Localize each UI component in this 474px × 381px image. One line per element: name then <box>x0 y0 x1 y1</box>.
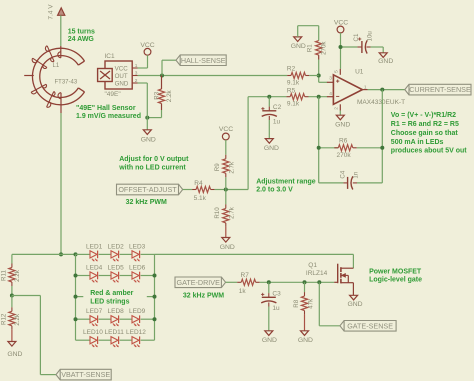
svg-text:C4: C4 <box>340 170 347 178</box>
capacitor C2 1u <box>261 97 281 139</box>
LED LED12 <box>132 336 140 347</box>
svg-text:LED6: LED6 <box>129 265 146 272</box>
flag GATE-DRIVE <box>175 277 226 288</box>
svg-text:LED11: LED11 <box>105 329 125 336</box>
svg-text:LED2: LED2 <box>108 243 125 250</box>
annotation: 49E hall sensor <box>76 105 141 120</box>
svg-text:5: 5 <box>333 70 339 73</box>
LED LED4 <box>90 272 98 283</box>
flag OFFSET-ADJUST <box>117 184 183 195</box>
resistor R4 5.1k <box>183 180 226 202</box>
junction left bus <box>74 274 78 278</box>
svg-text:VBATT-SENSE: VBATT-SENSE <box>61 370 110 379</box>
svg-text:9.1k: 9.1k <box>287 101 300 108</box>
junction VCC/C1 <box>339 45 343 49</box>
svg-text:R1: R1 <box>307 44 314 52</box>
svg-text:IRLZ14: IRLZ14 <box>306 270 328 277</box>
svg-text:Adjust for 0 V output: Adjust for 0 V output <box>119 156 189 163</box>
svg-text:500 mA in LEDs: 500 mA in LEDs <box>391 139 444 146</box>
resistor R1 270k <box>307 41 328 60</box>
svg-text:produces about 5V out: produces about 5V out <box>391 148 468 155</box>
svg-text:CURRENT-SENSE: CURRENT-SENSE <box>409 85 471 94</box>
svg-text:1: 1 <box>135 63 138 69</box>
svg-text:3: 3 <box>329 75 332 81</box>
svg-text:VCC: VCC <box>219 126 233 133</box>
svg-text:C1: C1 <box>353 33 360 41</box>
op-amp U1 <box>327 69 368 111</box>
junction gate-sense tap <box>317 280 321 284</box>
svg-text:GND: GND <box>7 351 22 358</box>
wire IC1 OUT to R2 (hall-sense net) <box>138 75 288 77</box>
wire LED row 3 <box>76 318 155 320</box>
junction left bus top <box>74 252 78 256</box>
svg-text:2.7k: 2.7k <box>228 161 235 174</box>
annotation: adjust for 0V <box>118 156 189 171</box>
junction R8 tap <box>303 280 307 284</box>
junction R6 right <box>380 146 384 150</box>
junction R6 left <box>317 146 321 150</box>
svg-text:2.2k: 2.2k <box>166 89 173 102</box>
resistor R3 2.2k <box>154 76 173 111</box>
svg-text:R8: R8 <box>293 299 300 307</box>
svg-text:GND: GND <box>298 337 313 344</box>
ground (R1 top) <box>291 37 306 50</box>
svg-text:2.2k: 2.2k <box>14 313 21 326</box>
capacitor C4 1n <box>319 170 383 189</box>
svg-text:LED5: LED5 <box>108 265 125 272</box>
svg-text:R2: R2 <box>287 65 296 72</box>
wire LED row 1 <box>76 253 155 255</box>
junction offset node <box>224 188 228 192</box>
ground (U1) <box>335 111 350 129</box>
svg-text:R5: R5 <box>287 88 296 95</box>
label "49E" <box>105 91 122 98</box>
svg-text:R11: R11 <box>0 270 7 281</box>
transistor Q1 IRLZ14 <box>334 264 353 296</box>
wire C1 to ground <box>371 47 384 53</box>
svg-text:5.1k: 5.1k <box>194 195 207 202</box>
wire to VBATT-SENSE <box>12 296 56 375</box>
label U1 <box>355 68 364 75</box>
svg-text:Vo = (V+ - V-)*R1/R2: Vo = (V+ - V-)*R1/R2 <box>391 112 456 119</box>
LED LED2 <box>111 251 119 262</box>
svg-text:"49E": "49E" <box>105 91 122 98</box>
LED LED9 <box>132 315 140 326</box>
wire toroid L1 to LED junction <box>60 113 62 254</box>
ground (R8) <box>298 331 313 344</box>
wire inverting node down <box>318 97 320 183</box>
stub left bus mid <box>74 295 84 299</box>
svg-text:VCC: VCC <box>334 20 348 27</box>
stub right bus mid <box>147 295 157 299</box>
svg-text:2.2k: 2.2k <box>14 269 21 282</box>
svg-text:L1: L1 <box>53 63 60 69</box>
resistor R5 9.1k <box>286 88 308 108</box>
resistor R8 47k <box>293 282 315 331</box>
ground (C2) <box>264 139 279 152</box>
svg-text:GND: GND <box>264 145 279 152</box>
svg-text:2.0 to 3.0 V: 2.0 to 3.0 V <box>256 187 293 194</box>
svg-text:Q1: Q1 <box>308 262 317 269</box>
annotation: adjustment range <box>256 178 316 193</box>
svg-text:1n: 1n <box>353 171 360 178</box>
ground (C1) <box>378 53 393 65</box>
svg-text:"49E" Hall Sensor: "49E" Hall Sensor <box>76 105 136 112</box>
svg-text:GND: GND <box>378 58 393 65</box>
wire GND to R1 <box>298 26 319 41</box>
svg-text:GND: GND <box>115 81 129 88</box>
ground (R10) <box>220 238 235 252</box>
svg-text:32 kHz PWM: 32 kHz PWM <box>126 199 167 206</box>
svg-text:270k: 270k <box>337 152 352 159</box>
svg-text:2: 2 <box>135 78 138 84</box>
wire drain net <box>155 254 354 268</box>
LED LED6 <box>132 272 140 283</box>
svg-text:GND: GND <box>291 43 306 50</box>
svg-text:VCC: VCC <box>140 42 154 49</box>
svg-text:Logic-level gate: Logic-level gate <box>369 276 422 283</box>
wire VCC to opamp V+ and C1 <box>341 33 358 69</box>
wire R5 left (offset net) <box>248 96 286 98</box>
annotation: red & amber LED strings <box>90 290 133 305</box>
pin numbers IC1 1/3/2 <box>135 63 138 84</box>
svg-text:Red & amber: Red & amber <box>90 290 133 297</box>
ground (Q1) <box>347 295 362 308</box>
label IC1 <box>105 53 116 60</box>
svg-text:LED9: LED9 <box>129 308 146 315</box>
junction right bus <box>153 274 157 278</box>
svg-text:GND: GND <box>220 244 235 251</box>
wire R5 right to - input <box>309 96 328 98</box>
ground (R12) <box>7 342 22 359</box>
svg-text:47k: 47k <box>308 298 315 309</box>
LED LED8 <box>111 315 119 326</box>
wire IC1 pin2 to ground <box>138 83 148 130</box>
svg-text:1u: 1u <box>273 119 281 126</box>
svg-text:R6: R6 <box>339 137 348 144</box>
junction R1/R2/+input <box>317 74 321 78</box>
svg-text:MAX4330EUK-T: MAX4330EUK-T <box>357 99 405 106</box>
svg-text:15 turns: 15 turns <box>68 28 95 35</box>
svg-text:LED4: LED4 <box>86 265 103 272</box>
resistor R7 1k <box>226 272 260 295</box>
svg-text:R12: R12 <box>0 313 7 325</box>
supply symbol +7.4V arrow <box>48 4 65 20</box>
resistor R6 270k <box>319 137 383 159</box>
svg-text:1.9 mV/G measured: 1.9 mV/G measured <box>76 113 141 120</box>
capacitor C1 10u <box>353 31 373 54</box>
wire LED row 4 <box>76 339 155 341</box>
labels LED row 2 <box>86 265 146 272</box>
svg-text:Choose gain so that: Choose gain so that <box>391 130 459 137</box>
LED LED3 <box>132 251 140 262</box>
wire LED row 2 <box>76 275 155 277</box>
hall sensor IC1 box <box>98 61 138 89</box>
label IRLZ14 <box>306 270 328 277</box>
svg-text:32 kHz PWM: 32 kHz PWM <box>183 292 224 299</box>
annotation: gain note <box>391 112 468 154</box>
svg-text:9.1k: 9.1k <box>287 80 300 87</box>
svg-text:with no LED current: with no LED current <box>118 165 186 172</box>
pin numbers U1 <box>329 70 367 110</box>
svg-text:R4: R4 <box>194 180 203 187</box>
LED LED5 <box>111 272 119 283</box>
wire opamp output <box>368 89 405 91</box>
wire gate net <box>260 281 335 283</box>
labels LED row 4 <box>83 329 146 336</box>
svg-text:FT37-43: FT37-43 <box>55 79 78 85</box>
flag GATE-SENSE <box>340 321 396 332</box>
wire output node down <box>381 90 383 183</box>
svg-text:1k: 1k <box>239 288 247 295</box>
svg-text:Adjustment range: Adjustment range <box>256 178 316 185</box>
junction toroid/LED feed <box>59 252 63 256</box>
svg-text:2.7k: 2.7k <box>228 206 235 219</box>
wire left LED bus <box>75 254 77 340</box>
wire R3 bottom to GND drop <box>147 110 161 118</box>
svg-text:LED12: LED12 <box>126 329 146 336</box>
svg-text:C2: C2 <box>273 104 282 111</box>
wire R2 to junction <box>309 75 318 77</box>
LED LED7 <box>90 315 98 326</box>
power VCC (IC1) <box>140 42 154 55</box>
wire offset net <box>226 97 248 190</box>
svg-text:GND: GND <box>335 122 350 129</box>
svg-text:VCC: VCC <box>115 66 129 73</box>
svg-text:4: 4 <box>329 91 332 97</box>
wire LED feed <box>12 253 76 255</box>
svg-text:Power MOSFET: Power MOSFET <box>369 269 422 276</box>
flag HALL-SENSE <box>176 55 226 66</box>
svg-text:1u: 1u <box>272 305 280 312</box>
label MAX4330EUK-T <box>357 99 405 106</box>
power VCC (U1) <box>334 20 348 33</box>
resistor R10 2.7k <box>214 190 236 238</box>
junction R5/feedback <box>317 95 321 99</box>
svg-text:GND: GND <box>262 337 277 344</box>
svg-text:R3: R3 <box>154 91 161 99</box>
svg-text:LED7: LED7 <box>86 308 103 315</box>
power VCC (divider) <box>219 126 233 140</box>
label Q1 <box>308 262 317 269</box>
svg-text:2: 2 <box>333 107 339 110</box>
svg-text:GND: GND <box>347 301 362 308</box>
junction output/feedback <box>380 88 384 92</box>
label: 15 turns 24 AWG <box>68 28 95 43</box>
flag CURRENT-SENSE <box>405 84 471 95</box>
svg-text:3: 3 <box>135 70 138 76</box>
wire to GATE-SENSE flag <box>319 282 340 326</box>
resistor R9 2.7k <box>214 140 235 190</box>
labels LED row 3 <box>86 308 146 315</box>
svg-text:LED8: LED8 <box>108 308 125 315</box>
svg-text:1: 1 <box>364 85 367 91</box>
LED LED11 <box>111 336 119 347</box>
junction left bus <box>74 317 78 321</box>
junction C3 tap <box>267 280 271 284</box>
svg-text:GATE-DRIVE: GATE-DRIVE <box>176 278 220 287</box>
wire right LED bus <box>154 254 156 340</box>
svg-text:R10: R10 <box>214 207 221 219</box>
resistor R12 2.2k <box>0 296 21 342</box>
junction right bus <box>153 317 157 321</box>
svg-text:GATE-SENSE: GATE-SENSE <box>347 321 393 330</box>
junction R11/R12 <box>10 294 14 298</box>
wire supply arrow to toroid L1 <box>60 15 62 46</box>
labels LED row 1 <box>86 243 146 250</box>
annotation: 32 kHz PWM (gate) <box>183 292 224 299</box>
svg-text:R9: R9 <box>214 163 221 171</box>
svg-text:IC1: IC1 <box>105 53 116 60</box>
svg-text:R7: R7 <box>241 272 250 279</box>
junction R3/GND <box>145 116 149 120</box>
flag VBATT-SENSE <box>56 369 111 380</box>
svg-text:GND: GND <box>141 137 156 144</box>
svg-text:C3: C3 <box>272 291 281 298</box>
svg-text:U1: U1 <box>355 68 364 75</box>
wire R1 to + input node <box>319 60 328 83</box>
svg-text:LED10: LED10 <box>83 329 103 336</box>
svg-text:10u: 10u <box>366 31 373 42</box>
svg-text:R1 = R6 and R2 = R5: R1 = R6 and R2 = R5 <box>391 121 459 128</box>
svg-text:LED1: LED1 <box>86 243 103 250</box>
svg-text:HALL-SENSE: HALL-SENSE <box>181 56 226 65</box>
resistor R2 9.1k <box>287 65 309 86</box>
junction hall-sense tap <box>160 74 164 78</box>
junction C2 tap <box>267 95 271 99</box>
wire to HALL-SENSE flag <box>162 60 176 75</box>
svg-text:LED3: LED3 <box>129 243 146 250</box>
svg-text:OFFSET-ADJUST: OFFSET-ADJUST <box>118 185 177 194</box>
ground (IC1) <box>141 130 156 144</box>
annotation: 32 kHz PWM (offset) <box>126 199 167 206</box>
annotation: power MOSFET <box>369 269 422 284</box>
LED LED10 <box>90 336 98 347</box>
ground (C3) <box>262 331 277 344</box>
capacitor C3 1u <box>261 282 281 331</box>
inductor L1 (toroid FT37-43) <box>24 46 84 113</box>
wire IC1 pin1 to VCC <box>138 55 148 68</box>
svg-text:24 AWG: 24 AWG <box>68 36 95 43</box>
svg-text:OUT: OUT <box>115 73 128 80</box>
LED LED1 <box>90 251 98 262</box>
svg-text:LED strings: LED strings <box>90 298 129 305</box>
svg-text:7.4 V: 7.4 V <box>48 4 55 20</box>
resistor R11 2.2k <box>0 254 21 295</box>
svg-text:270k: 270k <box>321 41 328 55</box>
